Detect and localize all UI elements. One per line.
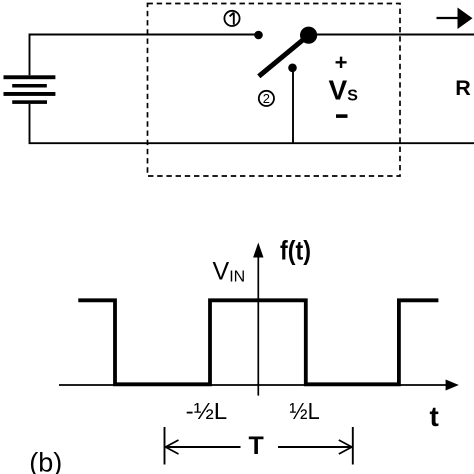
wire switch pole to R — [309, 34, 474, 36]
dashed box (switch block) — [148, 4, 401, 177]
svg-text:VS: VS — [329, 74, 359, 105]
svg-text:-½L: -½L — [186, 398, 228, 424]
svg-text:2: 2 — [263, 91, 270, 106]
svg-text:f(t): f(t) — [280, 235, 311, 265]
t axis horizontal — [59, 380, 459, 391]
switch lever S1 — [259, 37, 307, 77]
T dimension left arrow — [166, 440, 241, 454]
node contact 1 — [254, 31, 263, 40]
label circled 1 — [224, 11, 239, 26]
T dimension left tick — [164, 427, 166, 465]
label minus — [336, 114, 348, 118]
T dimension right arrow — [278, 440, 352, 454]
T dimension right tick — [352, 427, 354, 465]
svg-text:+: + — [335, 50, 348, 75]
label circled 2 — [259, 91, 274, 106]
svg-text:(b): (b) — [29, 448, 62, 474]
wire battery-bottom (bottom rail) — [30, 104, 474, 143]
svg-text:½L: ½L — [289, 398, 319, 424]
switch pivot node — [300, 27, 317, 44]
square waveform — [78, 300, 438, 384]
node contact 2 — [288, 64, 297, 73]
wire battery-top to node 1 — [30, 35, 259, 76]
battery V1 — [4, 75, 56, 104]
svg-text:T: T — [249, 432, 264, 460]
svg-text:t: t — [430, 401, 439, 432]
f(t) axis vertical — [253, 243, 263, 396]
svg-text:R: R — [455, 76, 471, 100]
svg-text:VIN: VIN — [213, 258, 246, 286]
current arrow — [437, 8, 473, 30]
wire contact 2 to bottom rail — [292, 68, 294, 143]
